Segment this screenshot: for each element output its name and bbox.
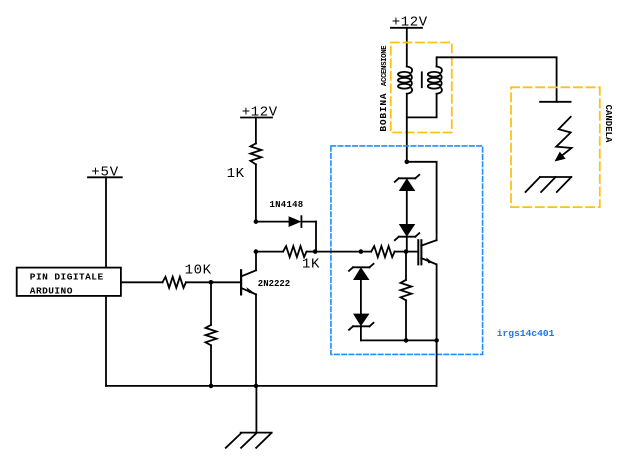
resistor R2 1K series gate <box>256 246 315 257</box>
transistor Q1 collector lead <box>241 270 256 276</box>
wire clamp bottom to gate node <box>406 237 408 252</box>
svg-text:1N4148: 1N4148 <box>270 200 304 210</box>
svg-text:2N2222: 2N2222 <box>258 279 290 289</box>
spark plug box label CANDELA <box>603 105 613 143</box>
wire IGBT emitter down <box>436 264 438 340</box>
wire gate row from 1K node into module <box>315 251 361 253</box>
IGBT Q2 collector lead <box>421 240 436 245</box>
power +12V top rail bar <box>391 27 422 29</box>
svg-text:CANDELA: CANDELA <box>603 105 613 143</box>
wire pullup resistor to collector node <box>255 164 257 221</box>
zener D5 gate-emitter bottom (cathode down) <box>349 314 374 330</box>
spark plug box (candela) dashed outline <box>511 87 600 207</box>
wire base node to transistor base <box>211 281 240 283</box>
label R2 value 1K <box>302 257 320 273</box>
transistor Q1 emitter lead with arrow <box>241 287 256 294</box>
node collector junction dot <box>405 160 410 165</box>
arduino pin box label line 1 <box>30 271 104 282</box>
zener D3 collector-gate clamp bottom (cathode down) <box>395 224 420 240</box>
wire +5V down to ground rail <box>105 177 107 386</box>
label transistor 2N2222 <box>258 279 290 289</box>
node diode tap dot <box>254 219 259 224</box>
wire emitter to ground rail <box>436 340 438 386</box>
svg-text:PIN DIGITALE: PIN DIGITALE <box>30 271 104 282</box>
power +12V pullup bar <box>241 117 272 119</box>
wire secondary top to spark plug <box>437 57 557 102</box>
transistor Q1 2N2222 base bar <box>240 270 242 294</box>
zener D4 gate-emitter top (cathode up) <box>349 264 374 280</box>
label R1 value 1K <box>227 166 245 182</box>
power +12V pullup label <box>242 104 278 120</box>
power +12V top rail label <box>392 14 428 30</box>
IGBT Q2 gate bar <box>417 240 419 264</box>
IGBT module box irgs14c401 dashed outline <box>331 146 483 355</box>
zener D2 collector-gate clamp top (cathode up) <box>395 175 420 191</box>
wire base resistor to base node <box>186 281 211 283</box>
resistor R3 10K base <box>163 277 186 288</box>
wire primary bottom to collector node <box>406 94 408 162</box>
node base junction dot <box>209 280 214 285</box>
svg-text:ARDUINO: ARDUINO <box>30 286 73 297</box>
IGBT Q2 body bar <box>420 240 422 264</box>
wire +12V to pullup resistor <box>255 118 257 144</box>
transformer core <box>421 72 423 87</box>
wire between gate-emitter zeners <box>360 280 362 314</box>
svg-text:1K: 1K <box>227 166 245 182</box>
node R2-diode junction dot <box>313 249 318 254</box>
resistor R4 base pulldown <box>206 282 217 386</box>
node ground rail emitter dot <box>254 384 259 389</box>
node collector-row lower dot <box>254 249 259 254</box>
resistor R1 1K pullup <box>250 143 261 164</box>
ground symbol <box>226 433 272 448</box>
svg-text:1K: 1K <box>302 257 320 273</box>
wire gate node to IGBT gate <box>406 251 418 253</box>
transformer coil box label BOBINA ACCENSIONE <box>378 45 389 132</box>
IGBT module label irgs14c401 <box>497 328 555 339</box>
transformer primary winding L1 <box>398 67 412 94</box>
spark plug chassis ground <box>526 177 572 192</box>
wire +12V top to transformer primary <box>406 28 408 67</box>
svg-text:irgs14c401: irgs14c401 <box>497 328 555 339</box>
wire Q1 collector up <box>255 252 257 271</box>
label R3 value 10K <box>185 263 212 279</box>
diode D1 1N4148 <box>256 216 316 227</box>
transformer secondary winding L2 <box>428 67 442 94</box>
power +5V bar <box>88 176 122 178</box>
label diode 1N4148 <box>270 200 304 210</box>
svg-text:10K: 10K <box>185 263 212 279</box>
spark plug top electrode bar <box>540 101 571 103</box>
resistor internal gate-emitter <box>401 252 412 341</box>
node gate junction dot <box>404 249 409 254</box>
spark gap arc symbol <box>555 117 572 162</box>
wire diode cathode down to gate row <box>315 222 317 252</box>
wire between clamp zeners <box>406 191 408 224</box>
wire module emitter rail <box>361 339 437 341</box>
wire arduino pin to base resistor <box>121 281 163 283</box>
transformer coil box (bobina accensione) dashed outline <box>391 43 452 133</box>
wire secondary bottom to primary line <box>407 94 437 118</box>
arduino pin box <box>17 268 121 296</box>
resistor internal gate series <box>361 246 406 257</box>
wire ground stub <box>255 386 257 433</box>
wire collector node to IGBT collector <box>407 162 437 240</box>
node gate-left junction dot <box>359 249 364 254</box>
node emitter rail right dot <box>434 338 439 343</box>
IGBT Q2 emitter lead with arrow <box>421 257 436 264</box>
wire ground rail <box>106 385 437 387</box>
node ground rail R4 dot <box>209 384 214 389</box>
node emitter rail left dot <box>404 338 409 343</box>
wire Q1 emitter down to ground rail <box>255 294 257 386</box>
wire zener bottom to module emitter rail <box>360 326 362 340</box>
arduino pin box label line 2 <box>30 286 73 297</box>
power +5V label <box>91 165 119 181</box>
